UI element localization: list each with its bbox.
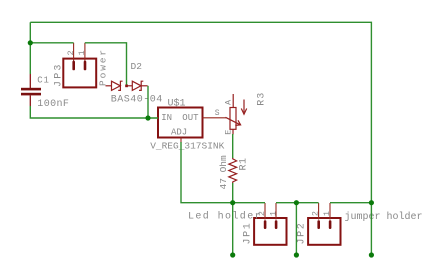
svg-text:JP3: JP3	[54, 62, 65, 87]
svg-text:2: 2	[257, 211, 267, 216]
svg-text:ADJ: ADJ	[171, 128, 187, 138]
svg-text:jumper holder: jumper holder	[345, 211, 423, 223]
svg-text:V_REG_317SINK: V_REG_317SINK	[150, 141, 224, 152]
svg-text:C1: C1	[37, 76, 49, 86]
svg-text:2: 2	[311, 211, 321, 216]
svg-text:E: E	[223, 130, 233, 135]
svg-text:100nF: 100nF	[37, 99, 69, 110]
svg-text:JP1: JP1	[243, 222, 254, 245]
svg-text:OUT: OUT	[182, 113, 199, 123]
svg-text:1: 1	[322, 211, 332, 216]
svg-text:Led holder: Led holder	[188, 210, 262, 222]
svg-text:D2: D2	[131, 61, 143, 72]
svg-text:JP2: JP2	[297, 222, 308, 245]
svg-text:47 Ohm: 47 Ohm	[218, 155, 229, 190]
svg-text:1: 1	[268, 211, 278, 216]
svg-text:U$1: U$1	[168, 98, 186, 110]
svg-text:R3: R3	[256, 92, 267, 106]
svg-text:Power: Power	[97, 48, 108, 86]
svg-text:1: 1	[77, 50, 87, 55]
svg-text:IN: IN	[161, 113, 172, 123]
svg-text:BAS40-04: BAS40-04	[111, 95, 163, 106]
svg-text:R1: R1	[239, 157, 250, 170]
svg-text:A: A	[223, 99, 233, 105]
svg-text:2: 2	[66, 50, 76, 55]
svg-text:S: S	[215, 109, 220, 118]
